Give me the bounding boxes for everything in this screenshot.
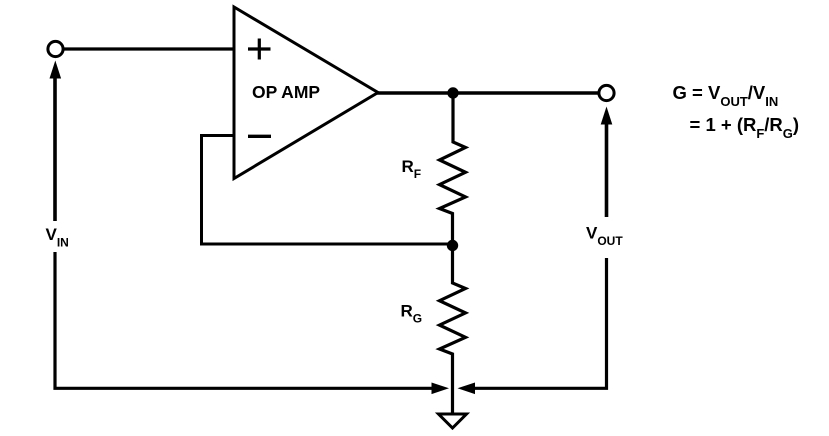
wire output from apex to output terminal xyxy=(376,91,599,94)
wire V_IN left vertical lower segment and bottom run xyxy=(55,252,432,388)
svg-text:OP AMP: OP AMP xyxy=(252,82,320,102)
node junction dot at RF/RG/feedback xyxy=(447,240,458,251)
op-amp + input symbol xyxy=(248,47,271,50)
wire bottom right run up to V_OUT terminal xyxy=(475,258,607,388)
node output terminal (open circle) xyxy=(599,85,614,100)
op-amp U1 triangle xyxy=(234,7,378,179)
wire V_IN left vertical upper segment with arrow xyxy=(53,72,57,221)
resistor RF zigzag xyxy=(440,93,466,246)
node junction dot at output/RF xyxy=(447,87,458,98)
ground symbol (open triangle) xyxy=(439,414,467,428)
wire input top from terminal to op-amp + input xyxy=(63,47,234,50)
node input terminal (open circle) xyxy=(48,41,63,56)
resistor RG zigzag xyxy=(440,246,466,414)
bottom right arrowhead pointing left into ground node xyxy=(458,383,476,395)
bottom left arrowhead pointing right into ground node xyxy=(432,383,450,395)
op-amp - input symbol xyxy=(248,135,271,138)
wire V_OUT vertical upper segment with arrow xyxy=(605,120,609,217)
wire feedback from junction to op-amp - input xyxy=(202,136,453,245)
